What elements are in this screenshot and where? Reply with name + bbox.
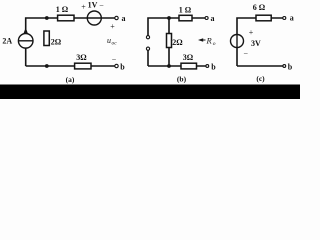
svg-text:(a): (a) [66,75,75,84]
svg-text:−: − [112,56,117,65]
wire: (c) top rail [237,18,283,35]
wire: (b) top rail [148,18,205,36]
voltage source 3V (circuit c) [231,35,244,48]
wire: (b) bottom rail [148,65,206,67]
wire: (a) top rail [26,18,115,34]
svg-text:2Ω: 2Ω [51,38,62,47]
svg-text:1 Ω: 1 Ω [179,5,192,14]
paper background [0,0,300,99]
resistor 2ohm (circuit a) [44,31,49,46]
svg-text:R: R [206,35,213,45]
wire: (c) bottom rail [237,65,283,67]
wire: (a) left branch lower segment [25,48,27,66]
open terminal upper (removed source, circuit b) [146,36,149,39]
current source I=2A (circuit a) [18,28,33,49]
terminal b (circuit c) [283,65,286,68]
svg-text:a: a [211,14,215,23]
svg-text:3V: 3V [251,39,261,48]
svg-text:b: b [288,63,293,72]
svg-text:b: b [120,63,125,72]
node: junction bottom (b) [167,64,171,68]
resistor 6ohm (circuit c) [256,15,271,21]
wire: (b) middle branch [168,18,170,66]
svg-text:b: b [211,63,216,72]
svg-text:3Ω: 3Ω [76,53,87,62]
svg-text:1V: 1V [88,1,98,10]
svg-text:(c): (c) [256,74,265,83]
svg-text:oc: oc [112,41,118,47]
wire: (c) left branch lower segment [236,47,238,66]
resistor 2ohm (circuit b) [167,34,172,48]
svg-text:1 Ω: 1 Ω [56,5,69,14]
svg-text:+: + [249,28,254,37]
open terminal lower (removed source, circuit b) [146,47,149,50]
svg-text:−: − [243,50,248,59]
node: junction top (a) [45,16,49,20]
svg-text:6 Ω: 6 Ω [253,3,266,12]
svg-text:u: u [107,36,111,45]
svg-text:+: + [81,3,86,12]
svg-text:a: a [290,14,294,23]
svg-text:3Ω: 3Ω [183,53,194,62]
terminal b (circuit b) [206,65,209,68]
svg-text:(b): (b) [177,75,187,84]
terminal a (circuit b) [205,17,208,20]
svg-text:o: o [213,41,216,47]
svg-text:−: − [99,2,104,11]
arrow and label R_o (circuit b) [198,38,206,42]
resistor 3ohm (circuit a) [75,63,91,69]
resistor 1ohm (circuit a) [58,15,74,21]
node: junction bottom (a) [45,64,49,68]
node: junction top (b) [167,16,171,20]
svg-text:+: + [110,22,115,31]
wire: (a) bottom rail [26,65,115,67]
voltage source 1V (circuit a) [87,11,101,25]
black letterbox bar at bottom [0,85,300,100]
svg-text:a: a [122,14,126,23]
terminal b (circuit a) [115,64,118,67]
resistor 1ohm (circuit b) [179,15,192,20]
terminal a (circuit c) [283,17,286,20]
svg-text:2Ω: 2Ω [172,38,183,47]
svg-text:2A: 2A [2,36,12,45]
resistor 3ohm (circuit b) [181,63,197,69]
wire: (b) left open branch lower segment [147,50,149,66]
terminal a (circuit a) [115,16,118,19]
